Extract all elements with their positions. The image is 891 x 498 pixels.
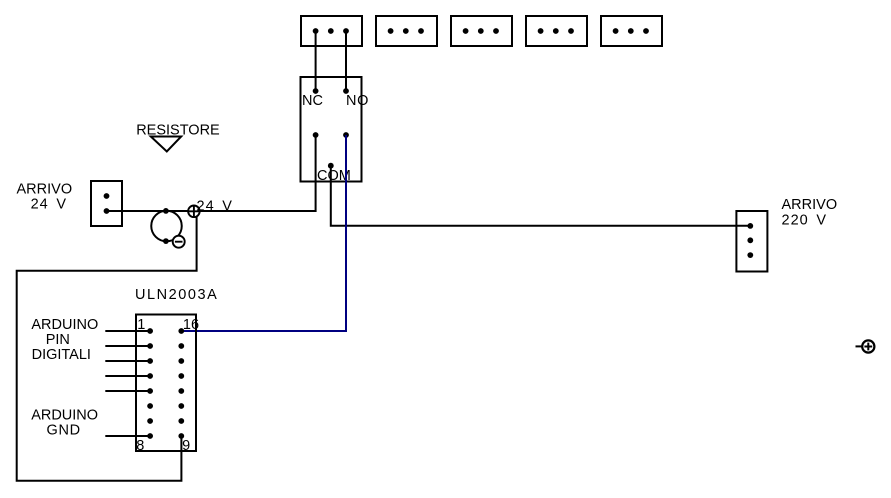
connector J2 (top terminal block 2): [376, 16, 437, 46]
wire 24V negative loop to ULN2003A pin 9: [17, 211, 197, 481]
wire arduino digital pin 4: [105, 375, 150, 377]
connector J3 (top terminal block 3): [451, 16, 512, 46]
relay K1 COM terminal: [328, 163, 334, 169]
connector J4 pins: [538, 28, 574, 34]
IC U1 ULN2003A body: [136, 315, 196, 452]
connector J5 (top terminal block 5): [601, 16, 662, 46]
relay K1 contact block: [301, 77, 362, 182]
terminal block ARRIVO 24 V: [91, 181, 122, 226]
connector J5 pins: [613, 28, 649, 34]
svg-text:PIN: PIN: [46, 332, 70, 348]
terminal block ARRIVO 220 V: [736, 211, 767, 272]
wire (blue) relay coil right to ULN2003A pin 16: [180, 135, 346, 331]
arrow marker (down triangle): [151, 137, 181, 152]
wire arduino GND to pin 8: [105, 435, 150, 437]
relay K1 NO terminal: [343, 88, 349, 94]
svg-text:ARDUINO: ARDUINO: [31, 317, 98, 333]
wire relay coil left to 24V rail (down then left): [107, 135, 316, 211]
U1 right column pins (16-9): [178, 328, 184, 439]
relay K1 NC terminal: [313, 88, 319, 94]
U1 left column pins (1-8): [147, 328, 153, 439]
wire arduino digital pin 3: [105, 360, 150, 362]
wire J1 pin3 to relay NO: [345, 31, 347, 91]
svg-text:9: 9: [182, 438, 190, 454]
ARRIVO 24V pins: [104, 193, 110, 214]
wire relay COM to ARRIVO 220V (down then right): [331, 166, 751, 226]
connector J2 pins: [388, 28, 424, 34]
wire arduino digital pin 1: [105, 330, 150, 332]
power supply PS1 24V (circle): [151, 211, 182, 242]
connector J4 (top terminal block 4): [526, 16, 587, 46]
svg-text:ARDUINO: ARDUINO: [31, 407, 98, 423]
wire arduino digital pin 5: [105, 390, 150, 392]
node plus terminal (right): [856, 340, 875, 352]
connector J1 pins: [313, 28, 349, 34]
svg-text:ULN2003A: ULN2003A: [135, 287, 218, 303]
svg-text:24 V: 24 V: [197, 198, 233, 214]
svg-text:220 V: 220 V: [782, 213, 828, 229]
PS1 plus terminal: [188, 206, 200, 218]
PS1 bottom node: [163, 238, 169, 244]
PS1 top node: [163, 208, 169, 214]
svg-text:NO: NO: [346, 93, 369, 109]
connector J1 (top terminal block 1): [301, 16, 362, 46]
svg-text:16: 16: [183, 317, 199, 333]
relay K1 coil terminal left: [313, 132, 319, 138]
wire J1 pin1 to relay NC: [315, 31, 317, 91]
svg-text:GND: GND: [47, 422, 81, 438]
PS1 minus terminal: [173, 236, 185, 248]
svg-text:8: 8: [136, 438, 144, 454]
svg-text:NC: NC: [302, 93, 323, 109]
wire arduino digital pin 2: [105, 345, 150, 347]
connector J3 pins: [463, 28, 499, 34]
ARRIVO 220V pins: [747, 223, 753, 258]
svg-text:ARRIVO: ARRIVO: [17, 182, 73, 198]
svg-text:DIGITALI: DIGITALI: [32, 347, 91, 363]
relay K1 coil terminal right: [343, 132, 349, 138]
svg-text:24 V: 24 V: [31, 197, 67, 213]
svg-text:ARRIVO: ARRIVO: [782, 197, 838, 213]
